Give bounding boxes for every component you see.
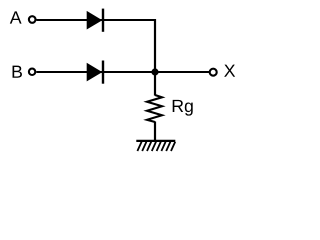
node A label — [10, 11, 22, 23]
resistor value label Rg — [173, 100, 193, 116]
terminal X — [210, 69, 217, 76]
terminal A — [29, 16, 36, 23]
wire junction to resistor — [154, 72, 156, 96]
wire A to diode and corner to bus — [36, 19, 156, 21]
diode D2 cathode bar — [102, 61, 104, 84]
node X label — [224, 65, 235, 77]
terminal B — [29, 69, 35, 75]
diode D1 triangle — [87, 11, 103, 30]
resistor Rg zigzag — [147, 95, 162, 122]
node B label — [13, 66, 22, 78]
diode D1 cathode bar — [102, 9, 104, 32]
wire B line to output — [36, 71, 209, 73]
junction node — [151, 68, 158, 75]
ground bar — [136, 140, 175, 142]
wire vertical bus from corner to junction — [154, 19, 156, 73]
ground hatching — [137, 142, 175, 151]
diode D2 triangle — [87, 63, 103, 82]
wire resistor to ground — [154, 122, 156, 142]
